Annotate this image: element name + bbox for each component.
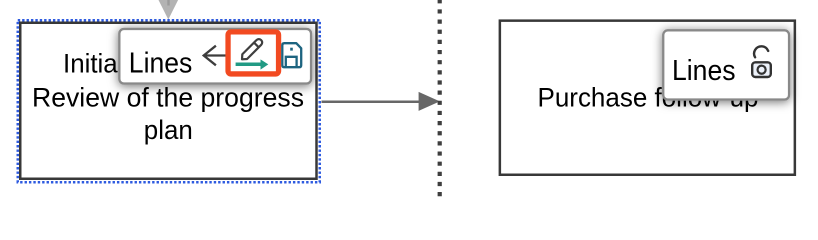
teal arrow icon [236, 62, 261, 66]
selection highlight (blue dotted) around left node [18, 20, 320, 182]
unlock icon [752, 46, 771, 77]
node: left box [20, 23, 316, 179]
page divider dotted line [438, 0, 442, 198]
tooltip popup (right) [663, 30, 789, 99]
incoming edge arrowhead (grey triangle) [158, 0, 179, 20]
svg-text:Lines: Lines [129, 47, 193, 79]
node: right box (Purchase follow-up) [500, 21, 795, 175]
svg-text:Review of the progress: Review of the progress [32, 82, 304, 112]
connector arrowhead [419, 92, 440, 111]
back arrow icon [204, 46, 226, 66]
svg-text:plan: plan [144, 115, 193, 145]
tooltip popup (left) [119, 29, 311, 84]
incoming edge shaft (top) [167, 0, 169, 6]
highlight frame (orange) [228, 32, 278, 74]
connector edge shaft (left node to divider) [322, 101, 421, 104]
edit/pencil icon [240, 38, 264, 62]
svg-text:Lines: Lines [672, 55, 736, 87]
save icon [282, 43, 301, 67]
